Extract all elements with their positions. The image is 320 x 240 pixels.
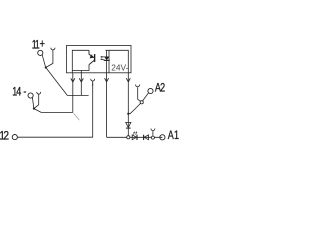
wire pin drop right — [127, 73, 129, 138]
svg-text:24V-: 24V- — [111, 62, 128, 72]
svg-text:11: 11 — [32, 38, 40, 52]
LED D1 cathode bar — [104, 59, 110, 61]
inner circuit loop left — [72, 50, 89, 73]
plug contact fork A2 — [136, 85, 141, 102]
LED D3 — [132, 135, 136, 140]
svg-text:A1: A1 — [168, 129, 179, 143]
terminal circle A1 — [160, 135, 165, 140]
contact arm stub 14 — [32, 97, 33, 108]
plug pin arrow left1 — [71, 78, 75, 82]
plug contact fork A1 — [151, 129, 155, 137]
wire 14 horizontal — [41, 112, 72, 114]
transistor Q1 — [89, 50, 95, 64]
svg-text:A2: A2 — [155, 82, 165, 96]
node junction coil — [127, 113, 129, 115]
contact arm 14 to wire — [34, 109, 41, 113]
diode D2 suppressor — [126, 122, 131, 127]
plug pin arrow LED — [105, 78, 109, 82]
node circle A2 — [140, 101, 143, 104]
label 11+ — [32, 38, 45, 52]
wire horizontal from 11 arm — [67, 94, 88, 96]
diode D4 reverse — [144, 135, 149, 140]
outer box U1 module — [67, 46, 132, 73]
contact arm 11 long — [46, 68, 68, 96]
label 14- — [12, 85, 26, 99]
wire pin drop LED — [106, 73, 108, 138]
terminal circle 11 — [38, 50, 43, 55]
LED D3 light arrows — [134, 132, 137, 134]
svg-text:-: - — [23, 85, 26, 99]
contact arm stub 11 — [42, 55, 45, 67]
wire A2 to coil node — [128, 103, 140, 113]
LED D1 light arrows — [101, 57, 105, 59]
plug pin arrow right — [126, 78, 130, 82]
contact arm A2 — [143, 93, 149, 101]
plug contact fork 12 riser — [91, 79, 95, 86]
plug contact fork 11 — [46, 48, 55, 68]
wire A1 horizontal — [107, 136, 163, 138]
node circle A1 wire left — [127, 136, 130, 139]
wire 12 horizontal — [17, 83, 92, 137]
plug contact fork 14 — [34, 92, 41, 109]
terminal circle 14 — [28, 93, 33, 98]
plug pin arrow left2 — [79, 78, 83, 82]
node circle A1 plug — [151, 136, 154, 139]
terminal circle A2 — [148, 88, 153, 93]
node junction 14 — [33, 108, 35, 110]
LED D1 indicator — [106, 50, 108, 73]
svg-text:12: 12 — [0, 130, 9, 143]
svg-text:+: + — [40, 38, 45, 52]
wire pin drop left2 — [80, 71, 82, 96]
wire pin drop left1 — [72, 73, 74, 113]
contact tip faint — [74, 113, 80, 120]
node junction 11 — [45, 66, 47, 68]
terminal circle 12 — [12, 135, 17, 140]
svg-text:14: 14 — [12, 85, 21, 99]
inner rect 24V block — [106, 50, 129, 73]
transistor Q1 emitter arrowhead — [90, 54, 95, 58]
